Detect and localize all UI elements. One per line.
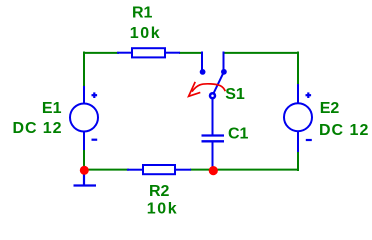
- wire top-middle horizontal (R1 right to S1 left throw): [179, 52, 202, 54]
- plus sign E1: [92, 92, 98, 98]
- wire bottom-middle horizontal (R2 right through node 2 to right corner): [190, 169, 299, 171]
- svg-text:DC 12: DC 12: [319, 122, 369, 139]
- S1 left throw pin: [201, 52, 203, 71]
- wire left vertical (top corner down to E1 plus pin): [83, 52, 85, 88]
- ground symbol: [74, 174, 97, 186]
- voltage source E1: [70, 86, 98, 150]
- resistor R2: [127, 165, 191, 174]
- svg-text:R2: R2: [149, 183, 170, 200]
- svg-text:10k: 10k: [130, 25, 162, 42]
- svg-text:C1: C1: [228, 126, 249, 143]
- switch actuation arrow (red): [189, 82, 226, 96]
- svg-text:S1: S1: [225, 86, 245, 103]
- svg-text:R1: R1: [132, 4, 153, 21]
- S1 pole pin down to C1: [212, 98, 214, 135]
- S1 right throw contact dot: [221, 69, 227, 75]
- junction node dot left (red): [80, 166, 89, 175]
- svg-text:DC 12: DC 12: [13, 120, 63, 137]
- S1 left throw contact dot: [200, 69, 206, 75]
- wire right vertical upper (corner down to E2 plus pin): [297, 52, 299, 86]
- junction node dot right (red): [209, 166, 218, 175]
- wire top-left horizontal (node 1 to R1 left): [83, 52, 119, 54]
- S1 blade (closed to right throw): [213, 72, 224, 94]
- resistor R1: [117, 48, 180, 57]
- voltage source E2: [284, 84, 312, 152]
- plus sign E2: [306, 92, 312, 98]
- minus sign E2: [306, 139, 312, 141]
- svg-text:10k: 10k: [147, 201, 179, 218]
- wire top-right horizontal (S1 right throw to E2 corner): [224, 52, 300, 54]
- minus sign E1: [92, 139, 98, 141]
- switch S1: [200, 52, 227, 136]
- svg-text:E2: E2: [320, 100, 340, 117]
- svg-text:E1: E1: [42, 100, 62, 117]
- capacitor C1: [202, 136, 225, 171]
- wire left vertical lower (E1 minus pin to ground node): [83, 150, 85, 171]
- wire right vertical lower (E2 minus pin down to bottom corner): [297, 151, 299, 171]
- S1 right throw pin: [223, 52, 225, 71]
- wire bottom-left horizontal (ground node to R2 left): [84, 169, 129, 171]
- S1 pole ring: [210, 93, 215, 98]
